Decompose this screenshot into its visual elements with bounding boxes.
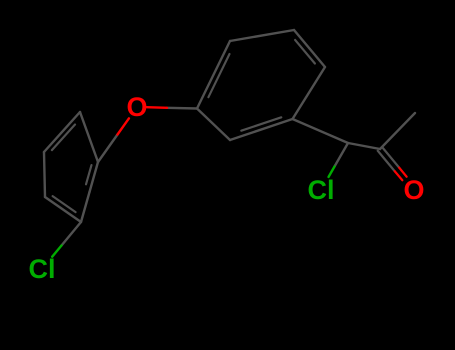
svg-text:O: O [126,92,147,122]
svg-text:Cl: Cl [29,254,56,284]
svg-text:O: O [403,175,424,205]
svg-text:Cl: Cl [308,175,335,205]
